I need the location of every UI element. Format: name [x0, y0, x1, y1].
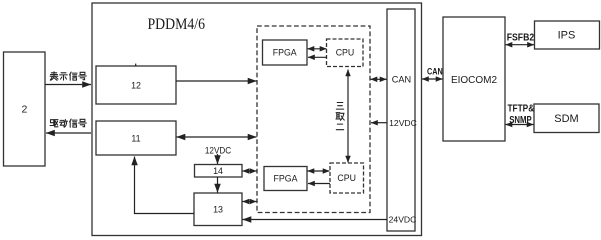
svg-text:TFTP&: TFTP&: [508, 104, 535, 115]
svg-text:CPU: CPU: [336, 48, 355, 58]
svg-text:11: 11: [131, 133, 140, 143]
svg-text:CAN: CAN: [427, 67, 443, 78]
svg-text:2: 2: [21, 104, 27, 116]
svg-text:12VDC: 12VDC: [389, 118, 417, 128]
svg-text:SNMP: SNMP: [509, 115, 532, 126]
svg-text:12: 12: [131, 81, 141, 91]
svg-text:EIOCOM2: EIOCOM2: [451, 75, 498, 86]
svg-text:IPS: IPS: [558, 30, 576, 42]
svg-text:CAN: CAN: [392, 75, 411, 85]
svg-text:13: 13: [213, 204, 223, 214]
svg-text:PDDM4/6: PDDM4/6: [148, 16, 206, 33]
svg-text:24VDC: 24VDC: [389, 215, 417, 225]
svg-text:FPGA: FPGA: [273, 47, 297, 57]
svg-text:FSFB2: FSFB2: [507, 33, 535, 44]
svg-text:12VDC: 12VDC: [205, 146, 232, 156]
svg-text:CPU: CPU: [337, 173, 356, 183]
svg-text:FPGA: FPGA: [274, 174, 298, 184]
svg-text:14: 14: [213, 166, 223, 176]
svg-text:SDM: SDM: [554, 113, 578, 125]
